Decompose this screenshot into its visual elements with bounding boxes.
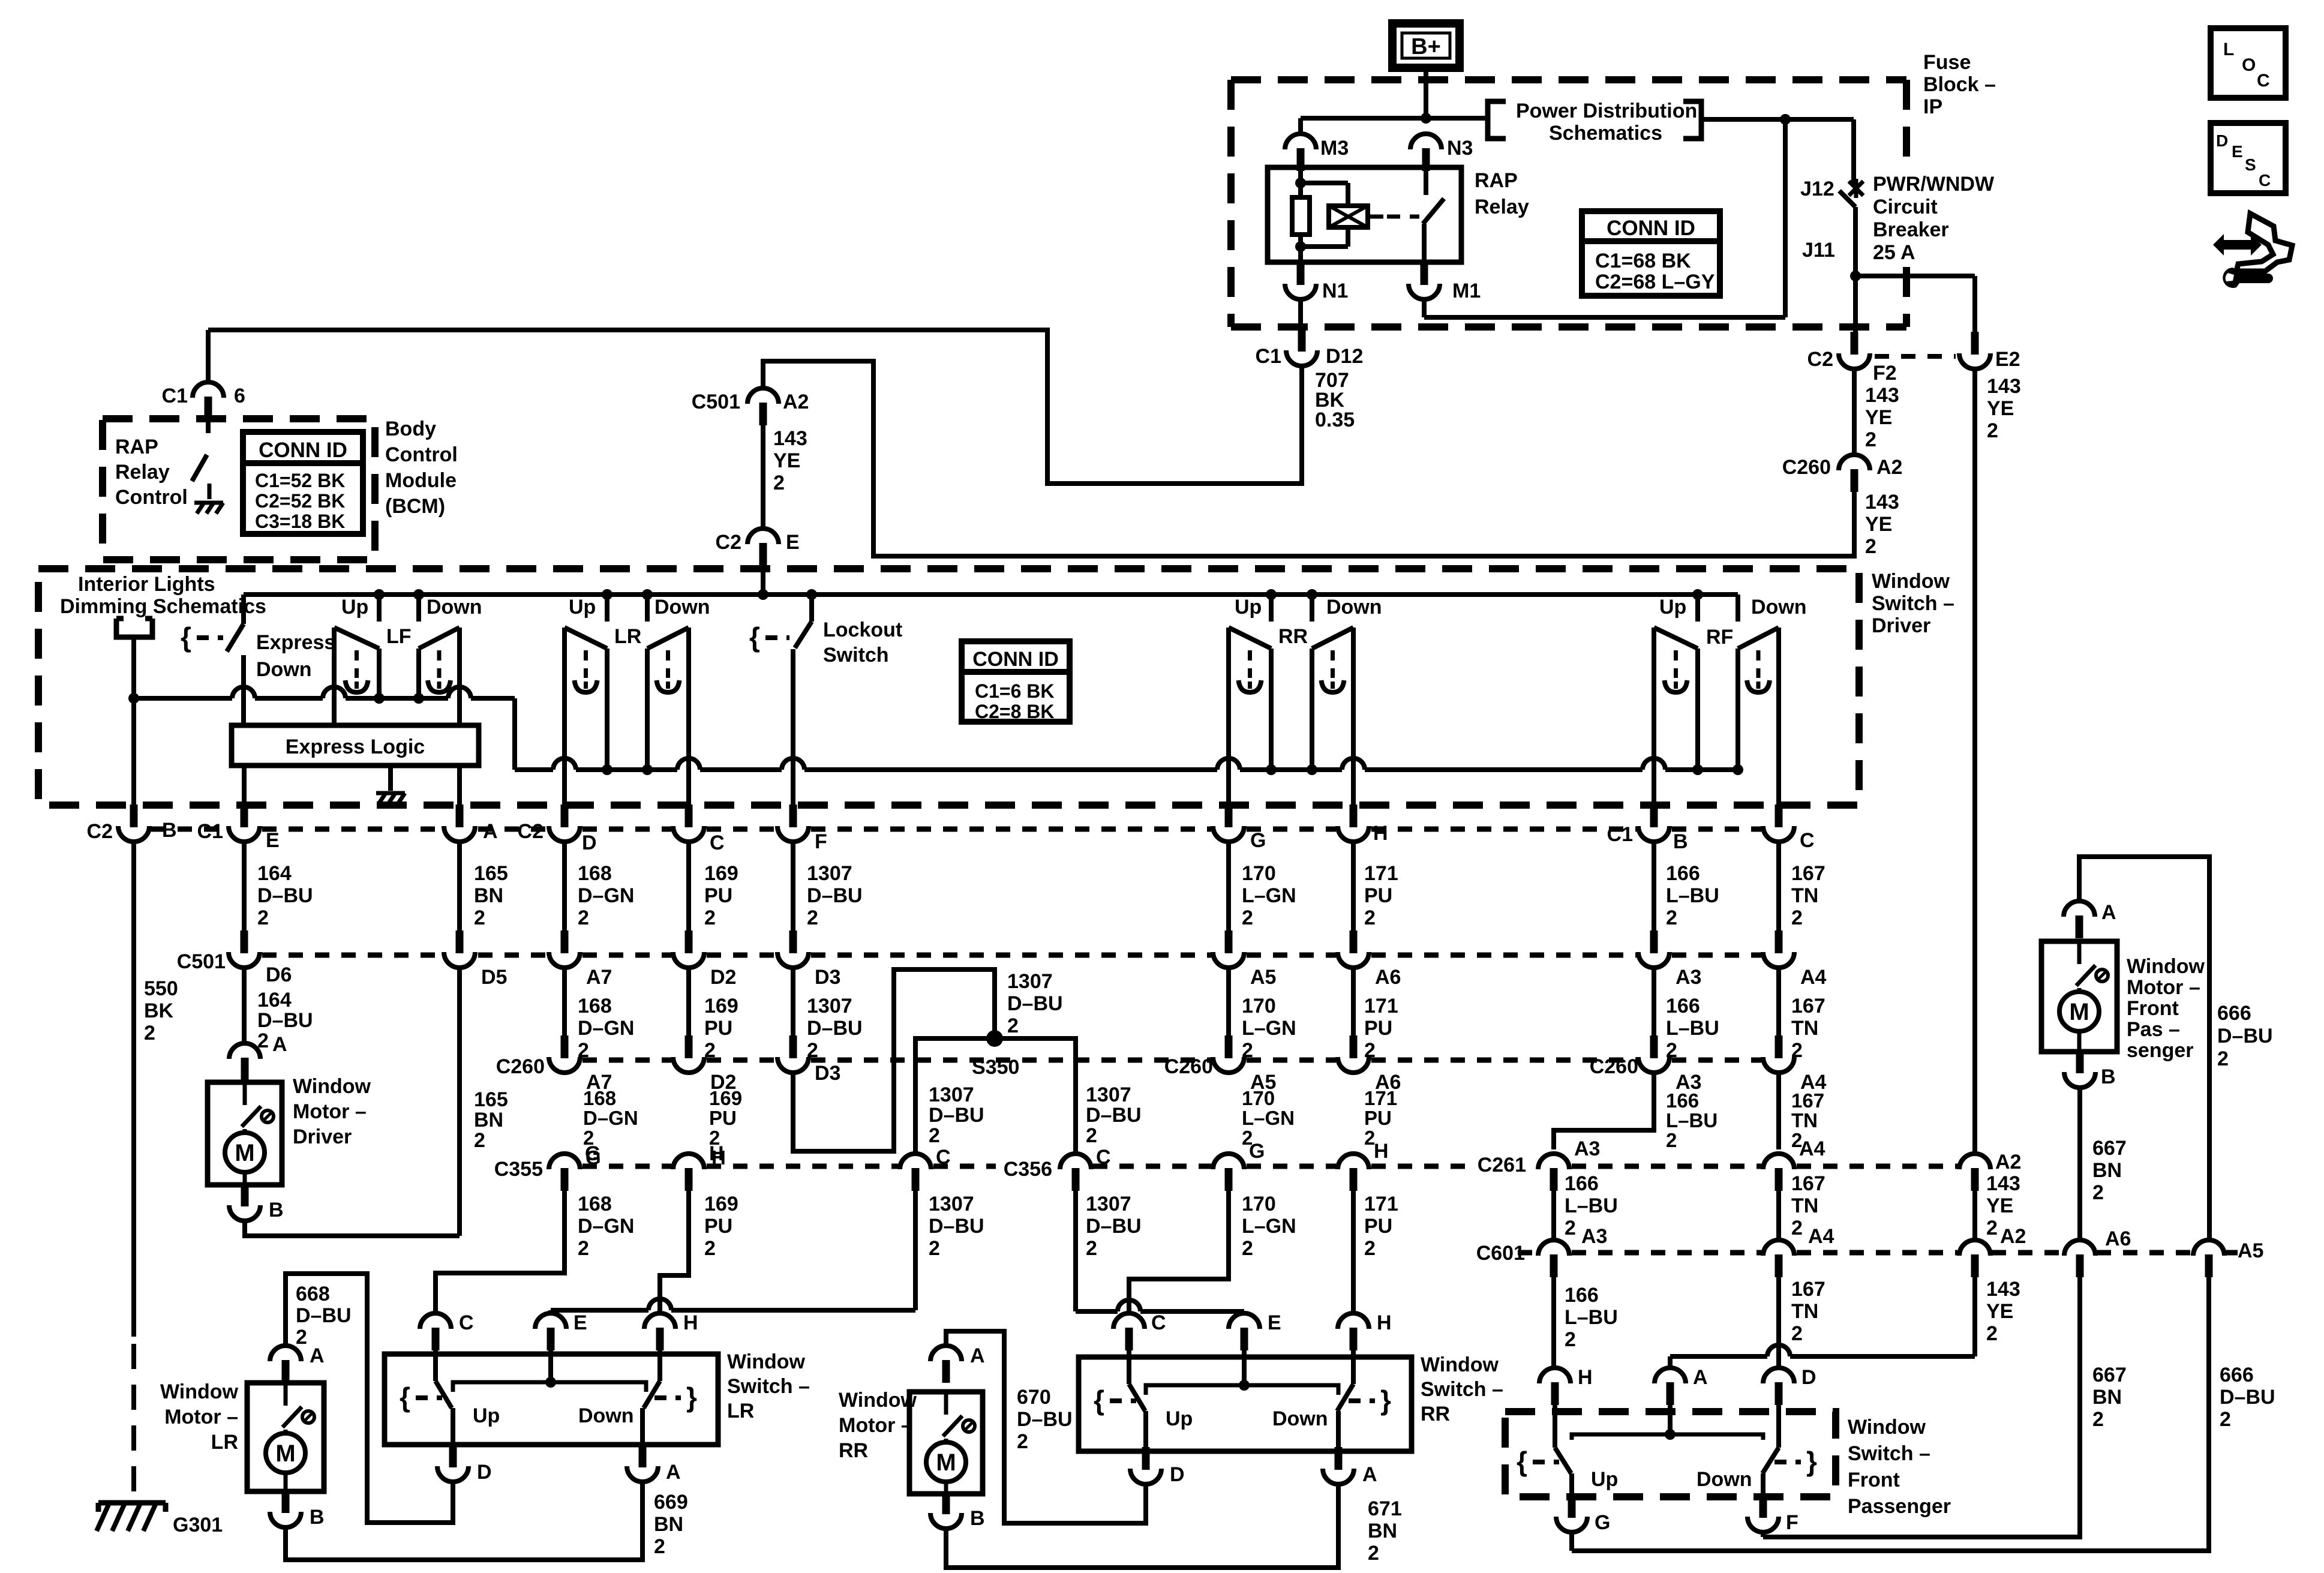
svg-text:169: 169 (704, 995, 738, 1017)
svg-text:PU: PU (709, 1107, 737, 1129)
svg-text:H: H (683, 1311, 698, 1334)
svg-text:167: 167 (1791, 1089, 1824, 1112)
connector C (167) (1775, 804, 1783, 827)
svg-text:Body: Body (385, 418, 436, 440)
svg-text:D–BU: D–BU (2217, 1025, 2273, 1047)
svg-text:166: 166 (1666, 1089, 1699, 1112)
svg-text:A3: A3 (1581, 1225, 1607, 1248)
svg-text:S350: S350 (972, 1056, 1019, 1079)
svg-text:2: 2 (1565, 1328, 1576, 1351)
relay coil (1329, 206, 1368, 227)
wire 169 LR down to connector C (686, 628, 691, 807)
svg-text:Switch –: Switch – (727, 1375, 810, 1398)
svg-text:PU: PU (704, 1215, 732, 1238)
svg-text:A6: A6 (1375, 966, 1401, 989)
svg-text:Schematics: Schematics (1549, 122, 1662, 145)
svg-text:2: 2 (654, 1535, 665, 1558)
connector C501 D2 (685, 930, 693, 953)
svg-text:L–BU: L–BU (1565, 1194, 1618, 1217)
wire 143 YE to C501 A2 (763, 361, 1854, 556)
svg-text:D3: D3 (815, 966, 840, 989)
wire 165 motor B return (245, 1221, 460, 1236)
svg-text:D–BU: D–BU (257, 884, 313, 907)
LR switch connectors C E H (432, 1328, 440, 1350)
wire 668 LR switch D to LR motor A (286, 1274, 453, 1523)
FP motor connector B (2076, 1050, 2084, 1073)
wire 169 C355 H to LR switch H (660, 1191, 689, 1297)
connector row1944 H at x=1148 (685, 1168, 693, 1191)
svg-text:Window: Window (1848, 1416, 1926, 1439)
svg-text:B+: B+ (1411, 34, 1441, 59)
junction B+ bus (1421, 113, 1431, 124)
svg-text:0.35: 0.35 (1315, 409, 1355, 431)
svg-text:666: 666 (2220, 1364, 2254, 1386)
svg-text:O: O (2242, 55, 2256, 75)
connector C260 D3 (789, 1035, 797, 1058)
svg-text:C1: C1 (162, 385, 188, 407)
svg-text:Switch: Switch (823, 644, 889, 667)
svg-text:C261: C261 (1478, 1154, 1526, 1176)
svg-text:2: 2 (1791, 906, 1803, 929)
connector C260 A2 (upper right) (1851, 469, 1858, 492)
svg-text:Window: Window (1421, 1353, 1499, 1376)
svg-text:D–BU: D–BU (1086, 1215, 1142, 1238)
BCM output driver switch (206, 419, 211, 433)
svg-text:H: H (1374, 1140, 1389, 1163)
svg-text:D: D (582, 831, 597, 854)
svg-text:166: 166 (1666, 862, 1700, 885)
svg-text:A2: A2 (1876, 456, 1902, 479)
svg-text:Down: Down (1326, 596, 1382, 619)
svg-text:(BCM): (BCM) (385, 495, 445, 518)
svg-text:A5: A5 (1250, 966, 1276, 989)
CONN ID table (BCM) (243, 432, 363, 534)
M3 connector (1298, 118, 1303, 133)
svg-text:A: A (1693, 1366, 1708, 1389)
svg-text:G301: G301 (173, 1514, 223, 1536)
svg-text:TN: TN (1791, 1194, 1818, 1217)
svg-text:25 A: 25 A (1873, 241, 1915, 264)
svg-text:1307: 1307 (1007, 970, 1053, 993)
svg-text:{: { (749, 622, 760, 653)
wire 143 C261 to C601 (1972, 1191, 1977, 1238)
svg-text:Driver: Driver (1872, 614, 1930, 637)
wire 166 jog from C260 A3 to C261 A3 (1554, 1073, 1654, 1149)
svg-text:C2=52 BK: C2=52 BK (255, 490, 345, 512)
svg-text:BN: BN (1368, 1520, 1397, 1542)
svg-text:B: B (310, 1506, 325, 1529)
svg-text:2: 2 (1242, 1237, 1253, 1260)
svg-text:{: { (400, 1382, 410, 1413)
bus2 left segment (134, 696, 232, 701)
svg-text:A: A (2101, 901, 2116, 924)
svg-text:RAP: RAP (1475, 169, 1518, 192)
svg-text:2: 2 (1007, 1014, 1019, 1037)
svg-text:1307: 1307 (1086, 1193, 1131, 1215)
svg-text:C356: C356 (1004, 1158, 1052, 1181)
window motor LR connector A (282, 1360, 290, 1383)
svg-text:2: 2 (1086, 1124, 1097, 1147)
svg-text:senger: senger (2127, 1039, 2194, 1062)
svg-text:169: 169 (704, 1193, 738, 1215)
svg-text:2: 2 (1986, 1322, 1998, 1345)
svg-text:G: G (1595, 1511, 1610, 1534)
connector row1944 C at x=1793 (1072, 1168, 1080, 1191)
svg-text:BN: BN (2092, 1159, 2122, 1182)
svg-text:}: } (1380, 1385, 1391, 1416)
connector C2 D (561, 804, 569, 827)
svg-text:2: 2 (1017, 1430, 1028, 1453)
express logic ground symbol (376, 791, 405, 795)
svg-text:166: 166 (1666, 995, 1700, 1017)
wire 1307 lockout to connector F (791, 649, 795, 807)
svg-text:2: 2 (929, 1237, 940, 1260)
svg-text:Express Logic: Express Logic (286, 736, 425, 758)
svg-text:Window: Window (727, 1350, 806, 1373)
svg-text:2: 2 (929, 1124, 940, 1147)
wire 707 BK to BCM (208, 330, 1302, 484)
svg-text:669: 669 (654, 1491, 688, 1514)
svg-text:M3: M3 (1320, 137, 1349, 160)
wire 143 YE F2 (1852, 370, 1857, 454)
svg-text:Motor –: Motor – (839, 1414, 912, 1437)
FP switch connector G (1568, 1495, 1576, 1518)
connector C501 A2 (759, 403, 767, 425)
svg-text:D–GN: D–GN (578, 884, 634, 907)
svg-text:A2: A2 (1995, 1151, 2021, 1173)
svg-text:H: H (709, 1142, 724, 1165)
svg-text:F2: F2 (1873, 362, 1897, 385)
svg-text:Down: Down (578, 1404, 634, 1427)
window motor RR connector B (942, 1491, 950, 1514)
svg-text:D–GN: D–GN (578, 1017, 634, 1040)
wire 667 motor B down (2077, 1088, 2082, 1238)
svg-text:RR: RR (1421, 1403, 1450, 1425)
N3 connector (1422, 148, 1430, 171)
connector C501 D5 (456, 930, 464, 953)
svg-text:D–BU: D–BU (2220, 1386, 2275, 1409)
svg-text:M: M (936, 1449, 956, 1476)
svg-text:Up: Up (1235, 596, 1262, 619)
svg-text:A: A (310, 1344, 325, 1367)
svg-text:L–GN: L–GN (1242, 1215, 1296, 1238)
svg-text:Pas –: Pas – (2127, 1018, 2180, 1041)
svg-text:Window: Window (1872, 570, 1950, 593)
junction left bus (128, 693, 139, 704)
svg-text:C1=68 BK: C1=68 BK (1595, 250, 1691, 272)
svg-text:D–BU: D–BU (1007, 992, 1063, 1015)
svg-text:Interior Lights: Interior Lights (78, 573, 215, 596)
connector C (169) (685, 804, 693, 827)
svg-text:D2: D2 (710, 966, 736, 989)
svg-text:YE: YE (1986, 1300, 2013, 1323)
svg-text:C355: C355 (494, 1158, 543, 1181)
LR switch connector A (639, 1445, 647, 1467)
wire 1307 feed to RR E (1076, 1309, 1118, 1314)
LOC reference box (2211, 28, 2286, 98)
svg-text:2: 2 (257, 906, 269, 929)
svg-text:RAP: RAP (115, 436, 158, 458)
wire 1307 right branch to C356 C (995, 1038, 1076, 1152)
M1 connector (1421, 262, 1428, 285)
svg-text:165: 165 (474, 1088, 508, 1111)
svg-text:143: 143 (1987, 375, 2021, 398)
lockout switch (809, 595, 814, 622)
BCM internal ground (194, 501, 223, 505)
svg-text:2: 2 (1086, 1237, 1097, 1260)
svg-text:171: 171 (1364, 1087, 1397, 1109)
svg-text:2: 2 (807, 906, 818, 929)
wire 171 to RR switch H (1351, 1191, 1356, 1313)
svg-text:671: 671 (1368, 1497, 1402, 1520)
connector F (1307) (789, 804, 797, 827)
wire 669 LR switch A to LR motor B (286, 1482, 642, 1560)
off-page bracket: Power Distribution Schematics (1488, 101, 1506, 139)
RR up switch body (1229, 628, 1271, 649)
svg-text:L–BU: L–BU (1666, 884, 1719, 907)
svg-text:170: 170 (1242, 1087, 1275, 1109)
svg-text:C2: C2 (87, 820, 113, 843)
svg-text:2: 2 (773, 472, 785, 494)
svg-text:G: G (585, 1142, 600, 1165)
wire LF up to express logic (332, 628, 337, 725)
svg-text:PU: PU (1364, 1017, 1392, 1040)
wire 671 RR switch A to RR motor B (946, 1485, 1338, 1568)
svg-text:2: 2 (1565, 1217, 1576, 1239)
wire 166 C261 to C601 (1551, 1191, 1556, 1238)
svg-text:G: G (1250, 829, 1266, 852)
svg-text:A3: A3 (1574, 1137, 1600, 1160)
svg-text:BN: BN (474, 884, 503, 907)
svg-text:C1: C1 (1256, 345, 1281, 368)
svg-text:A4: A4 (1800, 966, 1827, 989)
svg-text:TN: TN (1791, 884, 1818, 907)
svg-text:2: 2 (1368, 1542, 1379, 1565)
svg-text:2: 2 (2217, 1047, 2229, 1070)
svg-text:166: 166 (1565, 1284, 1599, 1307)
svg-text:C: C (1800, 829, 1815, 852)
svg-text:2: 2 (1987, 419, 1998, 442)
svg-text:C501: C501 (177, 950, 226, 973)
window switch - LR box (385, 1354, 718, 1445)
wire 1307 left branch to C355 C (915, 1038, 995, 1152)
ground G301 (98, 1500, 166, 1506)
svg-text:A3: A3 (1676, 966, 1701, 989)
wire 1307 from C260 D3 to S350 (793, 969, 995, 1151)
svg-text:6: 6 (234, 385, 245, 407)
svg-text:PU: PU (1364, 1107, 1392, 1129)
breaker blade (1839, 191, 1855, 207)
svg-text:670: 670 (1017, 1386, 1051, 1409)
RR switch connector A (1335, 1447, 1343, 1470)
svg-text:166: 166 (1565, 1172, 1599, 1195)
express down switch (241, 595, 246, 624)
wire 170 C356 G to RR switch C (1129, 1191, 1229, 1313)
svg-text:168: 168 (583, 1087, 616, 1109)
svg-text:C260: C260 (1782, 456, 1831, 479)
svg-text:D–BU: D–BU (807, 884, 863, 907)
connector C260 A3 (1650, 1035, 1658, 1058)
svg-text:BN: BN (474, 1109, 503, 1131)
svg-text:2: 2 (704, 1237, 716, 1260)
svg-text:Up: Up (1166, 1407, 1193, 1430)
svg-text:D6: D6 (266, 963, 292, 986)
svg-text:A: A (666, 1461, 681, 1484)
svg-text:171: 171 (1364, 862, 1398, 885)
svg-text:PWR/WNDW: PWR/WNDW (1873, 173, 1995, 196)
svg-text:1307: 1307 (807, 862, 852, 885)
svg-text:L–GN: L–GN (1242, 1107, 1295, 1129)
window motor - RR (909, 1392, 983, 1494)
svg-text:L–BU: L–BU (1565, 1306, 1618, 1329)
svg-text:Fuse: Fuse (1923, 51, 1971, 74)
svg-text:C: C (2259, 171, 2271, 190)
wire 143 C601 A2 to FP switch A (1972, 1266, 1977, 1356)
connector C260 A6 (1350, 1035, 1358, 1058)
svg-text:H: H (1578, 1366, 1593, 1389)
svg-text:Up: Up (569, 596, 596, 619)
svg-text:2: 2 (1242, 906, 1253, 929)
svg-text:Down: Down (1272, 1407, 1328, 1430)
CONN ID table (driver switch) (962, 641, 1070, 722)
svg-text:2: 2 (578, 906, 589, 929)
relay coil branch (1298, 169, 1303, 183)
window motor LR connector B (282, 1490, 290, 1513)
svg-text:D–BU: D–BU (1086, 1104, 1142, 1127)
svg-text:167: 167 (1791, 1278, 1825, 1301)
svg-text:2: 2 (1364, 906, 1376, 929)
svg-text:170: 170 (1242, 862, 1276, 885)
svg-text:C2=8 BK: C2=8 BK (975, 701, 1055, 722)
svg-text:Breaker: Breaker (1873, 218, 1949, 241)
svg-text:2: 2 (2092, 1181, 2104, 1204)
svg-text:BK: BK (144, 999, 174, 1022)
connector C601 A5 (2205, 1254, 2213, 1277)
wire 143 YE to FP A (1670, 1354, 1767, 1359)
wire J11 down to C2 (1853, 207, 1858, 335)
svg-text:Express: Express (256, 631, 335, 654)
svg-text:667: 667 (2092, 1137, 2127, 1160)
svg-text:2: 2 (2220, 1408, 2231, 1431)
wire 670 RR switch D to RR motor A (946, 1331, 1146, 1523)
svg-text:E: E (786, 531, 800, 554)
connector C501 A7 (561, 930, 569, 953)
wire M1 riser (1783, 119, 1788, 317)
connector A (165) (457, 766, 462, 806)
svg-text:2: 2 (1364, 1237, 1376, 1260)
svg-text:LR: LR (614, 625, 641, 648)
svg-text:Down: Down (1697, 1468, 1752, 1491)
wire down to J12 (1851, 119, 1856, 186)
svg-text:S: S (2245, 155, 2256, 174)
svg-text:CONN ID: CONN ID (259, 439, 347, 462)
svg-text:Front: Front (2127, 997, 2179, 1020)
wire 666 loop to FP motor A (2079, 857, 2209, 1238)
svg-text:C260: C260 (496, 1055, 545, 1078)
wire 550 BK down (131, 842, 136, 1337)
svg-text:PU: PU (704, 1017, 732, 1040)
svg-text:E: E (574, 1311, 587, 1334)
RR switch connectors C E H (1125, 1328, 1133, 1350)
svg-text:170: 170 (1242, 995, 1276, 1017)
svg-text:Window: Window (2127, 955, 2205, 978)
svg-text:Dimming Schematics: Dimming Schematics (60, 595, 266, 618)
connector C2 E (driver switch) (759, 543, 767, 566)
svg-text:A: A (272, 1033, 287, 1056)
wire 1307 C356 to RR switch E (1073, 1191, 1078, 1311)
svg-text:CONN ID: CONN ID (1607, 217, 1695, 240)
svg-text:J11: J11 (1802, 239, 1835, 262)
connector C601 A6 (2076, 1254, 2084, 1277)
wire 167 between C260 and C261 (1776, 1073, 1781, 1149)
connector C601 A4 (1775, 1254, 1783, 1277)
svg-text:{: { (1517, 1446, 1527, 1477)
svg-text:D–BU: D–BU (929, 1215, 984, 1238)
svg-text:Control: Control (385, 443, 458, 466)
RR down switch body (1312, 628, 1353, 649)
svg-text:143: 143 (1865, 491, 1899, 514)
connector H (171) (1350, 804, 1358, 827)
wire 167 RF down to connector C (1776, 628, 1781, 807)
svg-text:A4: A4 (1799, 1137, 1825, 1160)
B+ battery feed symbol (1392, 23, 1460, 68)
svg-text:Up: Up (1659, 596, 1686, 619)
wire from dimming bracket (131, 637, 136, 698)
wire 170 RR up to connector G (1226, 628, 1231, 807)
svg-text:Control: Control (115, 486, 188, 509)
svg-text:LR: LR (211, 1431, 238, 1454)
svg-text:Window: Window (293, 1075, 371, 1098)
connector C501 D3 (789, 930, 797, 953)
connector C260 D2 (685, 1035, 693, 1058)
window motor driver connector A (242, 968, 247, 1041)
connector C501 A4 (1775, 930, 1783, 953)
svg-text:C2: C2 (1807, 348, 1833, 371)
LF up switch body (334, 628, 379, 649)
svg-text:Module: Module (385, 469, 457, 492)
junction M1 riser (1780, 114, 1791, 125)
connector C601 A2 (1971, 1254, 1979, 1277)
svg-text:2: 2 (144, 1022, 155, 1044)
svg-text:169: 169 (709, 1087, 742, 1109)
wire express logic ground (388, 766, 393, 791)
svg-text:164: 164 (257, 989, 292, 1011)
svg-text:B: B (1673, 830, 1688, 853)
svg-text:M: M (2069, 999, 2089, 1025)
svg-text:Motor –: Motor – (164, 1406, 238, 1428)
connector row1944 H at x=2256 (1350, 1168, 1358, 1191)
svg-text:Relay: Relay (115, 461, 170, 484)
svg-text:A: A (1362, 1463, 1377, 1486)
connector C260 A5 (1225, 1035, 1233, 1058)
svg-text:Switch –: Switch – (1421, 1378, 1503, 1401)
svg-text:D: D (1801, 1366, 1816, 1389)
svg-text:C2: C2 (716, 531, 741, 554)
svg-text:E2: E2 (1995, 348, 2020, 371)
svg-text:C501: C501 (692, 391, 740, 413)
svg-text:YE: YE (1865, 513, 1892, 536)
svg-text:A6: A6 (2105, 1227, 2131, 1250)
svg-text:B: B (269, 1199, 284, 1221)
wire 143 YE E2 down right side (1972, 370, 1977, 1152)
svg-text:D: D (1170, 1463, 1185, 1486)
svg-text:YE: YE (1987, 397, 2014, 420)
svg-text:2: 2 (2092, 1408, 2104, 1431)
svg-text:Driver: Driver (293, 1125, 352, 1148)
wire into switch bus (761, 566, 765, 595)
wire rail to J12 (1701, 117, 1854, 122)
svg-text:143: 143 (1986, 1278, 2020, 1301)
